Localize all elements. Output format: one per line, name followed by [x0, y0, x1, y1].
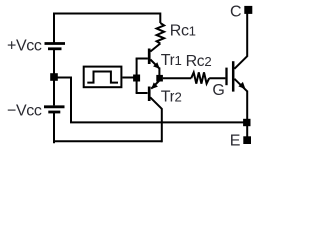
battery +Vcc long plate	[45, 42, 66, 45]
wire collector vertical	[246, 13, 248, 57]
resistor Rc2	[191, 72, 209, 83]
battery -Vcc short plate	[48, 111, 60, 114]
wire left rail middle	[53, 49, 55, 106]
transistor Tr1 collector	[150, 44, 160, 52]
terminal square E	[243, 136, 251, 144]
IGBT body bar	[232, 61, 235, 91]
svg-text:E: E	[230, 133, 240, 150]
arrowhead Tr2 emitter	[151, 82, 158, 89]
wire midpoint reference rail	[54, 78, 247, 123]
wire Tr2 base	[136, 92, 148, 94]
svg-text:−Vcc: −Vcc	[7, 102, 42, 119]
resistor Rc1	[157, 23, 165, 44]
pulse waveform glyph	[87, 72, 118, 83]
wire base link vertical	[136, 59, 138, 94]
battery +Vcc short plate	[48, 47, 62, 50]
wire bottom rail	[53, 140, 162, 142]
svg-text:Rc2: Rc2	[186, 53, 212, 70]
svg-text:Tr2: Tr2	[161, 88, 182, 105]
junction dot emitter node	[243, 119, 250, 126]
wire pulse output	[122, 77, 134, 79]
IGBT collector diagonal	[234, 56, 247, 69]
transistor Tr1 emitter	[150, 60, 159, 69]
wire Tr1 base	[136, 58, 148, 60]
IGBT gate bar	[225, 68, 227, 86]
IGBT emitter diagonal	[234, 79, 247, 92]
arrowhead IGBT emitter	[238, 82, 245, 89]
svg-text:C: C	[230, 3, 241, 20]
wire emitter vertical	[246, 91, 248, 137]
junction dot left rail midpoint	[50, 73, 58, 81]
transistor Tr2 base bar	[148, 87, 151, 102]
transistor Tr1 base bar	[148, 49, 151, 65]
junction dot base node	[133, 75, 140, 82]
wire Rc1 top lead	[159, 13, 161, 24]
wire -Vcc bottom lead	[53, 112, 54, 142]
pulse generator box	[84, 67, 122, 88]
junction dot output node	[156, 75, 163, 82]
wire Tr1 emitter to node	[158, 68, 160, 76]
svg-text:Rc1: Rc1	[170, 22, 196, 39]
wire left rail upper	[53, 14, 55, 44]
transistor Tr2 emitter	[151, 81, 159, 89]
wire gate rail left	[163, 77, 191, 79]
wire Tr2 collector vertical	[161, 108, 163, 142]
svg-text:Tr1: Tr1	[161, 52, 182, 69]
wire top rail	[53, 13, 160, 15]
wire gate rail right	[209, 77, 225, 79]
terminal square C	[244, 6, 252, 14]
battery -Vcc long plate	[44, 105, 65, 108]
svg-text:G: G	[212, 82, 224, 99]
svg-text:+Vcc: +Vcc	[7, 37, 42, 54]
transistor Tr2 collector	[150, 97, 162, 109]
arrowhead Tr1 emitter	[153, 62, 160, 69]
